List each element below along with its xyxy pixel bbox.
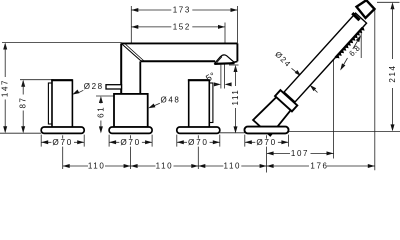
svg-text:110: 110 — [88, 162, 106, 171]
svg-text:Ø70: Ø70 — [256, 138, 277, 147]
svg-text:Ø28: Ø28 — [84, 82, 104, 91]
svg-text:111: 111 — [231, 89, 240, 106]
svg-text:Ø70: Ø70 — [120, 138, 141, 147]
svg-text:Ø48: Ø48 — [161, 95, 181, 104]
svg-text:Ø70: Ø70 — [52, 138, 73, 147]
svg-text:107: 107 — [291, 149, 309, 158]
svg-text:214: 214 — [388, 64, 397, 82]
svg-text:176: 176 — [310, 162, 328, 171]
svg-text:Ø70: Ø70 — [188, 138, 209, 147]
svg-text:87: 87 — [19, 96, 28, 108]
svg-text:152: 152 — [173, 22, 191, 31]
svg-text:110: 110 — [156, 162, 174, 171]
svg-text:173: 173 — [173, 6, 191, 15]
svg-text:110: 110 — [224, 162, 242, 171]
svg-text:147: 147 — [1, 79, 10, 97]
svg-text:61: 61 — [96, 106, 105, 118]
